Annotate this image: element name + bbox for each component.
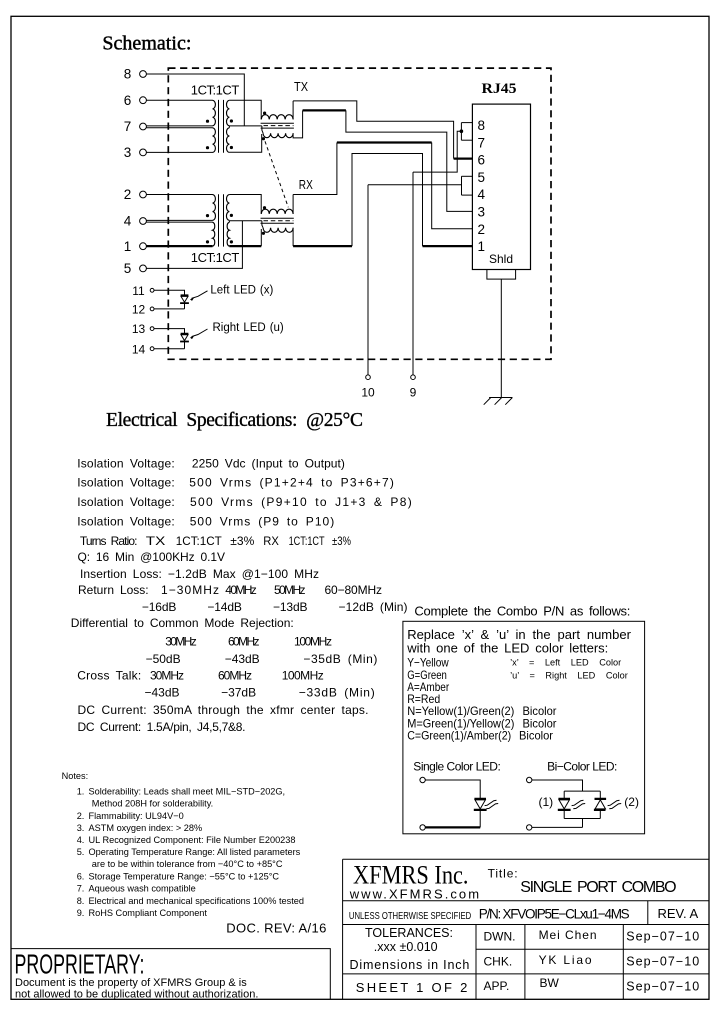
svg-text:−43dB: −43dB (145, 686, 180, 700)
wire T1 secondary center tap (229, 126, 262, 128)
single LED wiring top (425, 780, 480, 798)
svg-text:8: 8 (478, 118, 486, 133)
svg-text:Method 208H for solderability.: Method 208H for solderability. (92, 799, 213, 809)
T4 polarity dots (263, 206, 266, 209)
leader arrow for right LED (192, 329, 208, 337)
svg-text:Sep−07−10: Sep−07−10 (626, 954, 699, 968)
svg-text:6.Storage Temperature Range: −: 6.Storage Temperature Range: −55°C to +1… (77, 872, 280, 882)
pin 7 terminal (140, 123, 147, 130)
bicolor LED wiring top (532, 780, 600, 791)
dashed phase line T2 to T4 (265, 141, 288, 207)
dashed module boundary box (168, 68, 551, 359)
svg-text:Differential to Common Mode Re: Differential to Common Mode Rejection: (71, 616, 294, 630)
svg-text:30MHz: 30MHz (150, 668, 184, 682)
svg-text:4: 4 (124, 214, 132, 229)
proprietary box (11, 949, 330, 1000)
svg-text:100MHz: 100MHz (294, 635, 332, 649)
pin 8 terminal (140, 71, 147, 78)
wire pin 9 to RJ45 pins 7+8 (413, 123, 461, 375)
junction node pins 7-8 (460, 129, 464, 133)
svg-text:’x’ = Left LED Color: ’x’ = Left LED Color (510, 658, 621, 668)
svg-text:14: 14 (132, 342, 146, 356)
LED D2 between pins 13-14 (150, 327, 154, 331)
T1 secondary winding (226, 100, 229, 152)
wire pin 6 to T1 primary top (146, 99, 212, 101)
svg-text:1: 1 (124, 239, 132, 254)
svg-text:−33dB (Min): −33dB (Min) (299, 686, 375, 700)
T4 core with shield (261, 218, 294, 223)
svg-text:2250 Vdc (Input to Output): 2250 Vdc (Input to Output) (192, 456, 345, 470)
T3 core (219, 194, 224, 246)
wire pin 10 to RJ45 pins 4+5 (368, 176, 462, 375)
svg-text:11: 11 (132, 284, 145, 298)
bicolor LED D1 (563, 791, 565, 818)
svg-text:500 Vrms (P9+10 to J1+3 & P8): 500 Vrms (P9+10 to J1+3 & P8) (190, 495, 412, 509)
svg-text:10: 10 (361, 385, 375, 399)
T1 core (219, 100, 224, 153)
svg-text:3: 3 (478, 205, 486, 220)
isolation transformer T3 (RX 1CT:1CT) primary winding (213, 195, 216, 247)
RJ45 shield tab (487, 270, 516, 280)
svg-text:1CT:1CT: 1CT:1CT (191, 250, 240, 265)
svg-text:7: 7 (478, 135, 486, 150)
single LED terminal top (420, 777, 425, 782)
T1 polarity dots (206, 120, 209, 123)
svg-text:RX: RX (299, 178, 314, 192)
svg-text:2: 2 (124, 187, 132, 202)
svg-text:1.Solderability: Leads shall m: 1.Solderability: Leads shall meet MIL−ST… (77, 787, 285, 797)
T3 secondary winding (226, 195, 229, 247)
svg-text:12: 12 (132, 303, 146, 317)
svg-text:Isolation Voltage:: Isolation Voltage: (77, 456, 175, 470)
svg-text:’u’ = Right LED Color: ’u’ = Right LED Color (510, 670, 628, 680)
svg-text:4: 4 (478, 187, 486, 202)
svg-text:Sep−07−10: Sep−07−10 (626, 929, 699, 943)
T2 core with shield (261, 123, 294, 128)
svg-text:−13dB: −13dB (273, 600, 308, 614)
svg-text:Title:: Title: (488, 867, 518, 881)
single LED terminal bottom (420, 825, 425, 830)
svg-text:(2): (2) (624, 795, 639, 809)
wire T3 secondary bottom to T4 return winding (229, 245, 261, 247)
T3 polarity dots (206, 214, 209, 217)
svg-text:DOC. REV: A/16: DOC. REV: A/16 (226, 921, 326, 936)
wire pin 4 to T3 primary center tap (146, 220, 212, 222)
isolation transformer T1 (TX 1CT:1CT) primary winding (213, 100, 216, 152)
T4 bottom winding (263, 228, 293, 233)
svg-text:5: 5 (478, 170, 486, 185)
wire pin 3 to T1 primary bottom (146, 151, 212, 153)
wire T1 secondary top to T2 primary (229, 100, 261, 119)
pin 3 terminal (140, 149, 147, 156)
bicolor LED terminal top (527, 777, 532, 782)
svg-text:±3%: ±3% (332, 534, 351, 548)
svg-text:1−30MHz: 1−30MHz (161, 583, 219, 597)
svg-text:60MHz: 60MHz (218, 668, 252, 682)
pin 5 terminal (140, 265, 147, 272)
title block row line 1 (343, 900, 709, 902)
svg-text:BW: BW (540, 976, 560, 990)
svg-text:4.UL Recognized Component: Fil: 4.UL Recognized Component: File Number E… (77, 835, 296, 845)
svg-text:Isolation Voltage:: Isolation Voltage: (77, 476, 175, 490)
pin 1 terminal (140, 243, 147, 250)
wire TX+ output to RJ45 pin 6 (293, 101, 454, 159)
wire TX- output to RJ45 pin 3 (293, 110, 303, 137)
svg-text:DC Current: 1.5A/pin, J4,5,7&8: DC Current: 1.5A/pin, J4,5,7&8. (78, 720, 246, 734)
svg-text:30MHz: 30MHz (165, 635, 197, 649)
svg-text:−43dB: −43dB (225, 652, 260, 666)
wire RX- output to RJ45 pin 1 (292, 228, 294, 246)
svg-text:CHK.: CHK. (484, 954, 513, 968)
bicolor LED terminal bottom (527, 825, 532, 830)
svg-text:13: 13 (132, 322, 146, 336)
svg-text:6: 6 (124, 93, 132, 108)
wire T3 secondary center tap (229, 221, 262, 222)
pin 10 terminal (366, 375, 371, 380)
bicolor LED D2 light rays (608, 800, 622, 809)
svg-text:Return Loss:: Return Loss: (78, 583, 149, 597)
svg-text:8.Electrical and mechanical sp: 8.Electrical and mechanical specificatio… (77, 896, 304, 906)
svg-text:−14dB: −14dB (207, 600, 242, 614)
svg-text:Dimensions in Inch: Dimensions in Inch (350, 958, 470, 972)
svg-text:3: 3 (124, 145, 132, 160)
svg-text:1: 1 (478, 239, 486, 254)
title block column line 2 (524, 925, 526, 1000)
svg-text:8: 8 (124, 67, 132, 82)
svg-text:DC Current: 350mA through the: DC Current: 350mA through the xfmr cente… (78, 703, 369, 717)
svg-text:Shld: Shld (489, 252, 513, 266)
wire RX+ output to RJ45 pin 2 (293, 143, 337, 214)
svg-text:Single Color LED:: Single Color LED: (413, 759, 501, 773)
svg-text:100MHz: 100MHz (282, 668, 324, 682)
svg-text:−16dB: −16dB (142, 600, 177, 614)
single LED wiring bottom (479, 811, 481, 827)
pin 2 terminal (140, 191, 147, 198)
RJ45 pin 5 stub (462, 175, 473, 177)
svg-text:9.RoHS Compliant Component: 9.RoHS Compliant Component (77, 908, 208, 918)
svg-text:Bicolor: Bicolor (519, 729, 553, 743)
pin 4 terminal (140, 218, 147, 225)
wire pin 1 to T3 primary bottom (146, 245, 212, 247)
svg-text:−12dB (Min): −12dB (Min) (339, 600, 408, 614)
wire pin 2 to T3 primary top (146, 194, 212, 196)
svg-text:1CT:1CT: 1CT:1CT (289, 534, 326, 548)
combo P/N box (403, 621, 645, 834)
pin 6 terminal (140, 97, 147, 104)
T2 tap jog to bottom winding (262, 126, 263, 133)
svg-text:500 Vrms (P1+2+4 to P3+6+7): 500 Vrms (P1+2+4 to P3+6+7) (189, 476, 394, 490)
svg-text:APP.: APP. (484, 979, 510, 993)
svg-text:Cross Talk:: Cross Talk: (77, 668, 141, 682)
svg-text:TX: TX (146, 534, 166, 548)
svg-text:Right LED (u): Right LED (u) (213, 322, 284, 334)
title block row line 2 (343, 924, 709, 926)
svg-text:5.Operating Temperature Range:: 5.Operating Temperature Range: All liste… (77, 847, 301, 857)
svg-text:Insertion Loss: −1.2dB Max @1−: Insertion Loss: −1.2dB Max @1−100 MHz (80, 567, 319, 581)
svg-text:XFMRS Inc.: XFMRS Inc. (353, 861, 469, 890)
svg-text:Isolation Voltage:: Isolation Voltage: (77, 495, 175, 509)
wire pin 8 to TX coupling transformer tap (146, 74, 244, 126)
svg-text:9: 9 (410, 385, 417, 399)
bicolor LED wiring bottom (532, 819, 600, 828)
title block row line 3 (476, 948, 709, 950)
svg-text:are to be within tolerance fro: are to be within tolerance from −40°C to… (92, 859, 283, 869)
svg-text:SINGLE PORT COMBO: SINGLE PORT COMBO (520, 879, 676, 896)
svg-text:.xxx ±0.010: .xxx ±0.010 (374, 940, 438, 954)
RJ45 pin 7 stub (461, 139, 472, 141)
svg-text:500 Vrms (P9 to P10): 500 Vrms (P9 to P10) (190, 515, 335, 529)
svg-text:TOLERANCES:: TOLERANCES: (365, 926, 453, 940)
pin 9 terminal (411, 375, 416, 380)
svg-text:Isolation Voltage:: Isolation Voltage: (77, 515, 175, 529)
RJ45 pin 8 stub (461, 122, 472, 124)
svg-text:Q: 16 Min @100KHz 0.1V: Q: 16 Min @100KHz 0.1V (78, 550, 226, 564)
svg-text:40MHz: 40MHz (225, 583, 256, 597)
svg-text:50MHz: 50MHz (274, 583, 306, 597)
svg-text:with one of the LED color lett: with one of the LED color letters: (406, 640, 608, 655)
single LED diode symbol (474, 799, 487, 810)
svg-text:P/N: XFVOIP5E−CLxu1−4MS: P/N: XFVOIP5E−CLxu1−4MS (479, 907, 630, 922)
svg-text:www.XFMRS.com: www.XFMRS.com (349, 887, 481, 902)
svg-text:Complete the Combo P/N as foll: Complete the Combo P/N as follows: (414, 604, 630, 619)
svg-text:Turns Ratio:: Turns Ratio: (80, 534, 138, 548)
svg-text:2: 2 (478, 222, 486, 237)
title block row line 4 (343, 973, 709, 975)
svg-text:REV. A: REV. A (658, 906, 699, 921)
RJ45 pin 4 stub (462, 194, 473, 196)
wire T1 secondary bottom to T2 return winding (229, 134, 261, 152)
svg-text:60MHz: 60MHz (228, 635, 260, 649)
svg-text:60−80MHz: 60−80MHz (325, 583, 383, 597)
single LED light rays (485, 800, 499, 809)
wire shield to ground (500, 279, 502, 397)
LED D1 between pins 11-12 (150, 288, 154, 292)
svg-text:PROPRIETARY:: PROPRIETARY: (15, 949, 145, 980)
coupling transformer T2 (TX) top winding (261, 115, 293, 120)
svg-text:2.Flammability: UL94V−0: 2.Flammability: UL94V−0 (77, 811, 184, 821)
ground symbol (484, 398, 513, 405)
wire pin 7 to T1 primary center tap (146, 126, 212, 128)
svg-text:Sep−07−10: Sep−07−10 (626, 979, 699, 993)
svg-text:−50dB: −50dB (146, 652, 181, 666)
svg-text:5: 5 (124, 261, 132, 276)
svg-text:Mei Chen: Mei Chen (539, 928, 597, 942)
bicolor LED D2 (reversed) (599, 791, 601, 818)
svg-text:(1): (1) (539, 795, 554, 809)
svg-text:Electrical Specifications: @: Electrical Specifications: @25°C (106, 410, 363, 431)
title block column line 3 (622, 925, 624, 1000)
svg-text:Left LED (x): Left LED (x) (210, 284, 273, 296)
bicolor LED D1 light rays (572, 800, 586, 809)
svg-text:−37dB: −37dB (221, 686, 256, 700)
svg-text:6: 6 (478, 153, 486, 168)
title block REV divider (647, 901, 649, 925)
coupling transformer T4 (RX) top winding (261, 209, 293, 214)
svg-text:SHEET 1 OF 2: SHEET 1 OF 2 (356, 980, 468, 995)
svg-text:C=Green(1)/Amber(2): C=Green(1)/Amber(2) (407, 729, 511, 743)
svg-text:−35dB (Min): −35dB (Min) (303, 652, 377, 666)
svg-text:1CT:1CT: 1CT:1CT (176, 534, 223, 548)
svg-text:DWN.: DWN. (484, 930, 516, 944)
svg-text:RX: RX (263, 534, 279, 548)
T4 tap jog to bottom winding (262, 221, 263, 228)
svg-text:UNLESS OTHERWISE SPECIFIED: UNLESS OTHERWISE SPECIFIED (349, 911, 471, 922)
svg-text:7: 7 (124, 119, 132, 134)
RJ45 connector body (472, 104, 530, 269)
svg-text:Schematic:: Schematic: (102, 33, 191, 55)
leader arrow for left LED (192, 291, 208, 299)
T2 bottom winding (263, 133, 293, 138)
svg-text:Document is the property of XF: Document is the property of XFMRS Group … (15, 977, 247, 989)
wire T3 secondary top to T4 (229, 195, 261, 214)
svg-text:Bi−Color LED:: Bi−Color LED: (547, 759, 617, 773)
svg-text:1CT:1CT: 1CT:1CT (191, 83, 240, 98)
wire pin 5 to T4 tap (146, 221, 242, 269)
T2 polarity dots (263, 112, 266, 115)
title block column line 1 (475, 925, 477, 1000)
svg-text:±3%: ±3% (230, 534, 254, 548)
svg-text:7.Aqueous wash compatible: 7.Aqueous wash compatible (77, 884, 196, 894)
svg-text:not allowed to be duplicated w: not allowed to be duplicated without aut… (15, 988, 258, 1000)
svg-text:Notes:: Notes: (62, 771, 89, 781)
title block frame (343, 859, 709, 999)
svg-text:RJ45: RJ45 (482, 81, 517, 97)
svg-text:3.ASTM oxygen index: > 28%: 3.ASTM oxygen index: > 28% (77, 823, 202, 833)
svg-text:TX: TX (294, 80, 309, 94)
